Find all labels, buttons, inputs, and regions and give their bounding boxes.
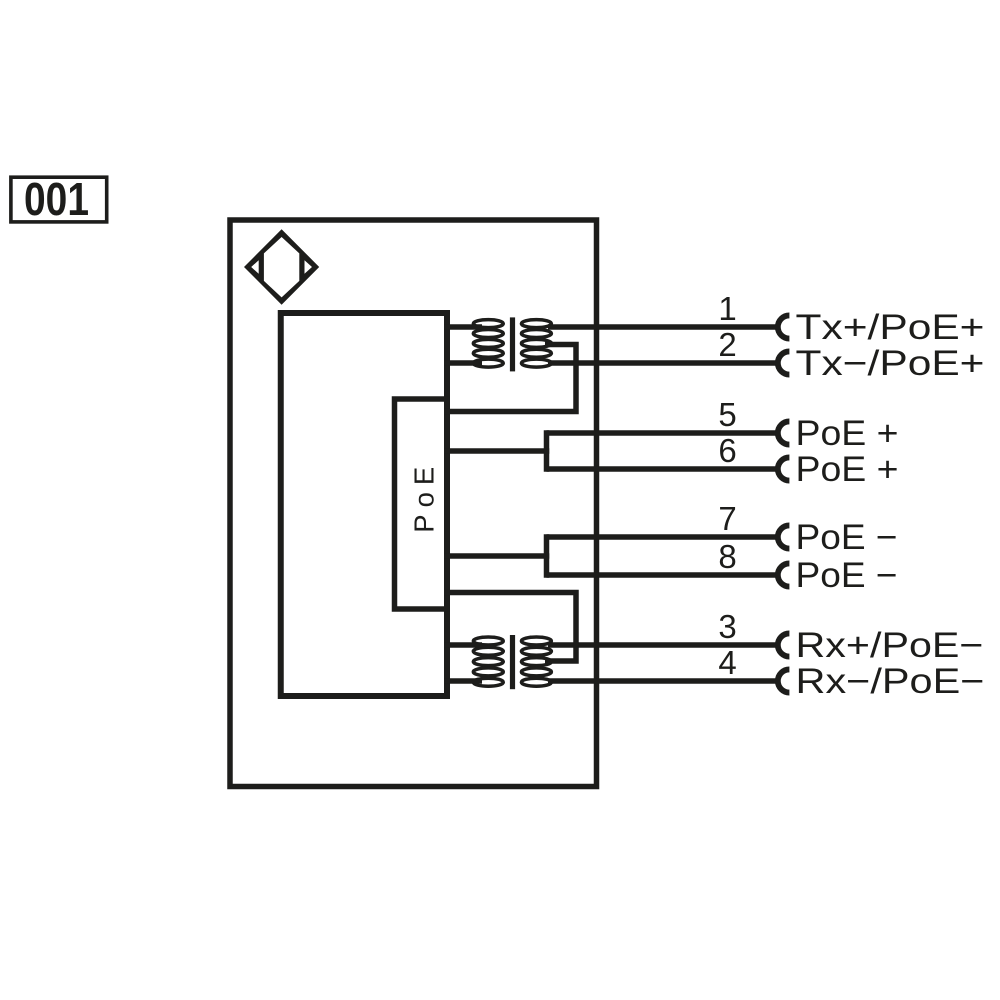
svg-text:Tx+/PoE+: Tx+/PoE+ [796,308,985,347]
socket contacts (C symbols) [778,315,790,692]
wire T1 center tap to PoE [444,345,576,412]
svg-text:PoE −: PoE − [796,556,898,595]
wire pin2 [548,360,777,366]
svg-text:2: 2 [718,326,736,363]
svg-text:PoE +: PoE + [796,414,899,453]
logo diamond [244,229,319,305]
svg-text:3: 3 [718,608,736,645]
transformer T1 (top) [473,320,551,368]
transformer T2 (bottom) [473,637,551,686]
T2 primary coil [473,637,503,645]
T1 primary coil [473,320,503,328]
signal labels [796,308,985,701]
svg-text:6: 6 [718,432,736,469]
contact pin6 [778,457,790,480]
wire PoE to bracket 7/8 [444,553,549,559]
svg-text:Rx−/PoE−: Rx−/PoE− [796,662,985,701]
wire chip to T2 primary top [444,642,482,648]
svg-text:001: 001 [24,173,89,225]
svg-text:7: 7 [718,500,736,537]
T1 core [510,317,515,371]
contact pin5 [778,421,790,444]
wire chip to T1 primary bottom [444,360,482,366]
svg-text:PoE −: PoE − [796,518,898,557]
inner chip box [281,313,447,696]
contact pin4 [778,669,790,692]
contact pin3 [778,633,790,656]
pin numbers [718,290,736,681]
contact pin7 [778,525,790,548]
contact pin2 [778,351,790,374]
wire chip to T1 primary top [444,324,482,330]
wire pin1 [548,324,777,330]
label box 001 [11,177,107,222]
svg-text:PoE +: PoE + [796,450,899,489]
wire pin5 [547,430,777,436]
wire pin6 [547,466,777,472]
svg-text:Tx−/PoE+: Tx−/PoE+ [796,344,985,383]
wire PoE to bracket 5/6 [444,448,549,454]
T1 secondary coil [521,320,551,328]
wire chip to T2 primary bottom [444,678,482,684]
svg-text:PoE: PoE [409,467,440,533]
contact pin1 [778,315,790,338]
bracket pins 7/8 [544,534,550,578]
wire T2 center tap to PoE [444,593,576,662]
outer device box [230,220,597,787]
contact pin8 [778,563,790,586]
wire pin7 [547,534,777,540]
svg-text:1: 1 [718,290,736,327]
wire pin8 [547,572,777,578]
svg-text:4: 4 [718,644,736,681]
bracket pins 5/6 [544,430,550,472]
T2 core [510,635,515,689]
svg-text:5: 5 [718,396,736,433]
T2 secondary coil [521,637,551,645]
wire pin3 [548,642,777,648]
wire pin4 [548,678,777,684]
PoE box [395,399,448,609]
svg-text:8: 8 [718,538,736,575]
svg-text:Rx+/PoE−: Rx+/PoE− [796,626,984,665]
